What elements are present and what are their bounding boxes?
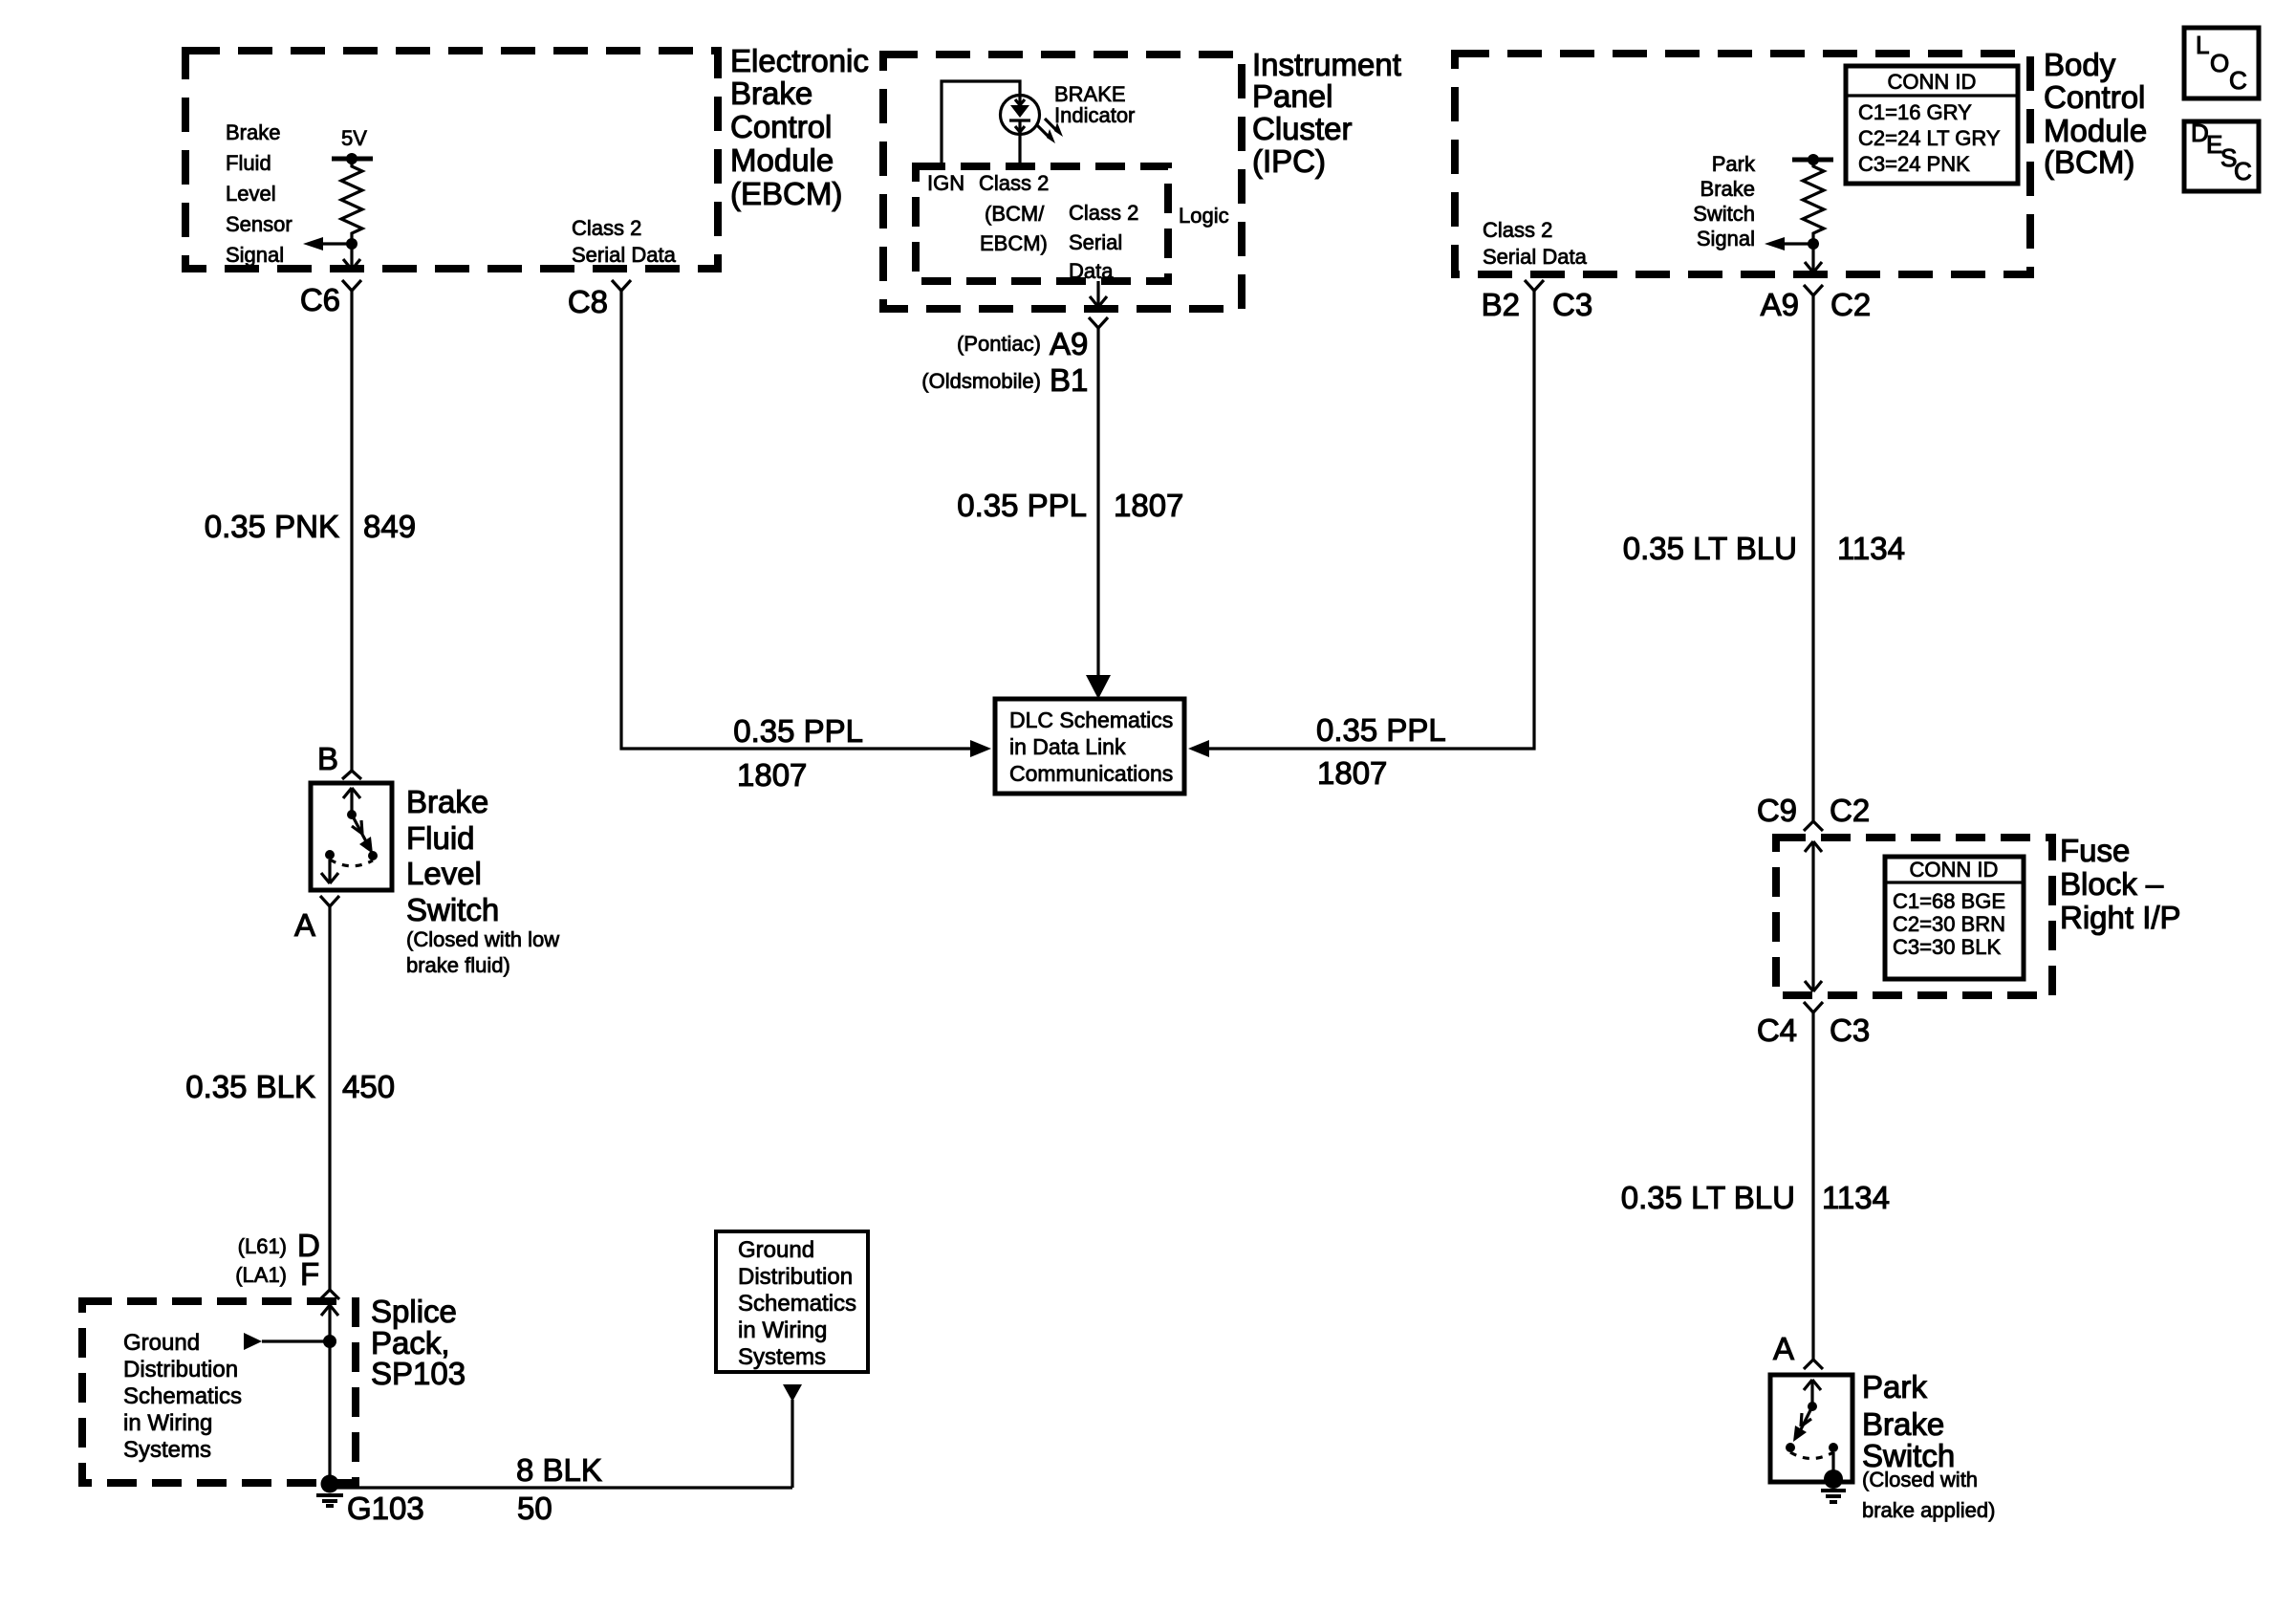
label Body Control Module (BCM) — [2044, 47, 2147, 180]
module box EBCM — [185, 51, 718, 269]
svg-text:450: 450 — [342, 1069, 395, 1104]
svg-text:849: 849 — [363, 509, 416, 544]
svg-text:1134: 1134 — [1822, 1180, 1890, 1215]
svg-text:0.35 PNK: 0.35 PNK — [205, 509, 339, 544]
desc box — [2184, 119, 2259, 191]
connector C8 — [568, 280, 631, 319]
loc box — [2184, 28, 2259, 98]
svg-text:C9: C9 — [1757, 793, 1797, 828]
svg-text:Serial: Serial — [1069, 230, 1122, 254]
svg-text:C2=24 LT GRY: C2=24 LT GRY — [1858, 126, 2001, 150]
svg-text:C2=30 BRN: C2=30 BRN — [1893, 912, 2005, 936]
label 8 BLK 50 — [516, 1452, 602, 1526]
svg-text:Signal: Signal — [1697, 227, 1755, 250]
svg-text:SP103: SP103 — [371, 1356, 466, 1391]
label 0.35 PNK 849 — [205, 509, 416, 544]
wire fuse block pass-through — [1805, 841, 1822, 991]
svg-text:Control: Control — [730, 109, 832, 144]
svg-text:B: B — [317, 741, 338, 776]
svg-text:1134: 1134 — [1837, 531, 1905, 566]
svg-text:B2: B2 — [1482, 287, 1520, 322]
svg-text:A9: A9 — [1761, 287, 1799, 322]
svg-text:A9: A9 — [1050, 326, 1088, 361]
svg-text:brake fluid): brake fluid) — [406, 953, 510, 977]
label (Pontiac) A9 (Oldsmobile) B1 — [921, 326, 1088, 398]
label Electronic Brake Control Module (EBCM) — [730, 43, 869, 211]
ground G103 — [316, 1475, 424, 1527]
label 0.35 PPL 1807 (left) — [733, 713, 863, 793]
svg-text:Brake: Brake — [226, 120, 280, 144]
wire A9 internal with arrowhead — [1805, 244, 1822, 272]
svg-text:0.35 PPL: 0.35 PPL — [957, 488, 1087, 523]
svg-text:Switch: Switch — [1693, 202, 1755, 226]
svg-text:Brake: Brake — [1700, 177, 1755, 201]
svg-text:Class 2: Class 2 — [1069, 201, 1138, 225]
svg-text:(EBCM): (EBCM) — [730, 176, 842, 211]
wire 0.35 PPL 1807 (BCM to DLC) — [1188, 291, 1534, 757]
node B — [317, 741, 361, 779]
label Brake Fluid Level Switch — [406, 784, 559, 977]
svg-text:Switch: Switch — [406, 892, 499, 927]
svg-text:1807: 1807 — [1317, 755, 1387, 791]
label Instrument Panel Cluster (IPC) — [1252, 47, 1401, 179]
svg-text:Ground: Ground — [123, 1330, 200, 1356]
svg-text:C8: C8 — [568, 284, 608, 319]
switch Brake Fluid Level Switch — [311, 783, 392, 890]
svg-text:Systems: Systems — [738, 1344, 826, 1370]
svg-text:C: C — [2234, 157, 2252, 185]
svg-text:5V: 5V — [341, 126, 367, 150]
svg-text:IGN: IGN — [927, 171, 964, 195]
svg-text:CONN ID: CONN ID — [1888, 70, 1977, 94]
resistor EBCM pull-up — [341, 159, 362, 244]
connector IPC output — [1089, 317, 1108, 328]
svg-text:Data: Data — [1069, 259, 1114, 283]
wire signal output arrow BCM — [1765, 237, 1819, 250]
connector B2 C3 — [1482, 280, 1593, 322]
label Park Brake Switch (Closed with brake applied) — [1862, 1369, 1995, 1522]
svg-text:Serial Data: Serial Data — [1483, 245, 1588, 269]
svg-text:C3: C3 — [1552, 287, 1592, 322]
wire 0.35 PPL 1807 (IPC to DLC) — [1086, 328, 1111, 699]
svg-text:(Closed with: (Closed with — [1862, 1468, 1978, 1491]
svg-text:50: 50 — [517, 1491, 552, 1526]
fuse block dashed box — [1776, 838, 2052, 995]
svg-text:Instrument: Instrument — [1252, 47, 1401, 82]
svg-text:Class 2: Class 2 — [1483, 218, 1552, 242]
svg-text:Right I/P: Right I/P — [2060, 900, 2181, 935]
conn id table BCM — [1846, 66, 2018, 184]
svg-text:Level: Level — [406, 856, 482, 891]
label 0.35 PPL 1807 (right) — [1316, 712, 1446, 791]
svg-text:Panel: Panel — [1252, 78, 1332, 114]
box DLC Schematics — [995, 699, 1184, 794]
svg-text:F: F — [300, 1256, 319, 1292]
svg-text:Splice: Splice — [371, 1294, 457, 1329]
label Park Brake Switch Signal — [1693, 152, 1756, 250]
svg-text:Block –: Block – — [2060, 866, 2164, 902]
ground park brake switch — [1821, 1491, 1846, 1502]
box Ground Distribution Schematics in Wiring Systems (right) — [716, 1231, 868, 1372]
label Logic — [1179, 204, 1229, 228]
svg-text:C3: C3 — [1830, 1012, 1870, 1048]
svg-text:Module: Module — [730, 142, 834, 178]
svg-text:Brake: Brake — [1862, 1406, 1944, 1442]
svg-text:L: L — [2196, 31, 2209, 59]
svg-text:G103: G103 — [347, 1491, 424, 1526]
svg-text:in Data Link: in Data Link — [1009, 734, 1126, 759]
module box BCM — [1455, 54, 2030, 274]
svg-text:brake applied): brake applied) — [1862, 1498, 1995, 1522]
svg-text:(Pontiac): (Pontiac) — [957, 332, 1041, 356]
connector C4 C3 — [1757, 1002, 1870, 1048]
wire 0.35 LT BLU 1134 (lower) — [1811, 1012, 1814, 1360]
label Class 2 Serial Data (EBCM) — [572, 216, 677, 267]
svg-text:C6: C6 — [300, 282, 340, 317]
svg-text:1807: 1807 — [737, 757, 807, 793]
svg-text:Cluster: Cluster — [1252, 111, 1353, 146]
logic box IPC — [916, 166, 1168, 281]
svg-text:Distribution: Distribution — [123, 1357, 238, 1382]
svg-text:Fuse: Fuse — [2060, 833, 2130, 868]
connector C9 C2 at fuse block — [1757, 793, 1870, 831]
svg-text:Park: Park — [1712, 152, 1756, 176]
svg-text:(Closed with low: (Closed with low — [406, 927, 559, 951]
svg-text:(IPC): (IPC) — [1252, 143, 1326, 179]
wire 0.35 LT BLU 1134 (upper) — [1811, 295, 1814, 821]
svg-text:Electronic: Electronic — [730, 43, 869, 78]
svg-text:B1: B1 — [1050, 362, 1088, 398]
svg-text:Serial Data: Serial Data — [572, 243, 677, 267]
label Fuse Block - Right I/P — [2060, 833, 2181, 935]
svg-text:C1=68 BGE: C1=68 BGE — [1893, 889, 2005, 913]
label Class 2 Serial Data (BCM) — [1483, 218, 1588, 269]
label Ground Distribution Schematics in Wiring Systems (left) — [123, 1330, 242, 1463]
svg-text:Brake: Brake — [730, 76, 812, 111]
wire 0.35 PPL 1807 (EBCM to DLC) — [621, 291, 991, 757]
label IGN Class 2 (BCM/EBCM) — [927, 171, 1049, 255]
svg-text:Logic: Logic — [1179, 204, 1229, 228]
svg-text:Ground: Ground — [738, 1237, 814, 1263]
connector into splice pack — [320, 1290, 339, 1316]
svg-text:Control: Control — [2044, 79, 2145, 115]
svg-text:Class 2: Class 2 — [979, 171, 1049, 195]
svg-text:C1=16 GRY: C1=16 GRY — [1858, 100, 1972, 124]
node A park brake — [1773, 1331, 1823, 1369]
svg-text:CONN ID: CONN ID — [1910, 858, 1999, 882]
svg-text:C: C — [2229, 66, 2247, 95]
svg-text:Class 2: Class 2 — [572, 216, 641, 240]
node 5V supply rail — [332, 126, 373, 164]
svg-text:(BCM/: (BCM/ — [985, 202, 1045, 226]
svg-text:0.35 BLK: 0.35 BLK — [185, 1069, 315, 1104]
node A connector — [294, 896, 339, 943]
svg-text:Signal: Signal — [226, 243, 284, 267]
svg-text:(L61): (L61) — [238, 1234, 287, 1258]
svg-text:Schematics: Schematics — [738, 1291, 856, 1317]
svg-text:Park: Park — [1862, 1369, 1927, 1404]
svg-text:8 BLK: 8 BLK — [516, 1452, 602, 1488]
label Brake Fluid Level Sensor Signal — [226, 120, 292, 267]
label 0.35 PPL 1807 (middle) — [957, 488, 1183, 523]
svg-text:Brake: Brake — [406, 784, 488, 819]
svg-text:0.35 PPL: 0.35 PPL — [1316, 712, 1446, 748]
label 0.35 LT BLU 1134 (lower) — [1621, 1180, 1890, 1215]
svg-text:(BCM): (BCM) — [2044, 144, 2134, 180]
node BCM supply rail — [1792, 154, 1833, 165]
wire IPC output internal — [1090, 281, 1107, 307]
svg-text:Schematics: Schematics — [123, 1383, 242, 1409]
svg-text:Systems: Systems — [123, 1437, 211, 1463]
connector C6 — [300, 280, 361, 317]
module box IPC — [883, 54, 1242, 309]
svg-text:Level: Level — [226, 182, 276, 206]
svg-text:C3=24 PNK: C3=24 PNK — [1858, 152, 1970, 176]
svg-text:0.35 PPL: 0.35 PPL — [733, 713, 863, 749]
svg-text:(Oldsmobile): (Oldsmobile) — [921, 369, 1041, 393]
svg-text:DLC Schematics: DLC Schematics — [1009, 708, 1173, 732]
wire 0.35 PNK 849 — [350, 291, 353, 771]
switch Park Brake Switch — [1770, 1375, 1852, 1489]
svg-text:C2: C2 — [1830, 287, 1871, 322]
wire signal output arrow EBCM — [303, 237, 357, 250]
wire C6 internal with arrowhead — [343, 244, 360, 270]
svg-text:1807: 1807 — [1114, 488, 1183, 523]
svg-text:in Wiring: in Wiring — [738, 1317, 827, 1343]
wire ground reference arrow into splice — [244, 1333, 336, 1350]
svg-text:C3=30 BLK: C3=30 BLK — [1893, 935, 2001, 959]
svg-text:Fluid: Fluid — [226, 151, 271, 175]
splice pack SP103 dashed box — [82, 1301, 356, 1483]
svg-text:Communications: Communications — [1009, 761, 1173, 786]
svg-text:A: A — [1773, 1331, 1794, 1366]
connector A9 C2 — [1761, 285, 1872, 322]
wire splice vertical — [328, 1305, 331, 1485]
svg-text:Fluid: Fluid — [406, 820, 475, 856]
svg-text:C2: C2 — [1830, 793, 1870, 828]
svg-text:EBCM): EBCM) — [980, 231, 1048, 255]
indicator lamp BRAKE — [942, 81, 1063, 166]
svg-text:A: A — [294, 907, 315, 943]
svg-text:Body: Body — [2044, 47, 2116, 82]
svg-text:in Wiring: in Wiring — [123, 1410, 212, 1436]
label 0.35 LT BLU 1134 (upper) — [1623, 531, 1905, 566]
svg-text:(LA1): (LA1) — [235, 1263, 287, 1287]
svg-text:C4: C4 — [1757, 1012, 1797, 1048]
svg-text:Sensor: Sensor — [226, 212, 292, 236]
label 0.35 BLK 450 — [185, 1069, 395, 1104]
svg-text:Indicator: Indicator — [1054, 103, 1135, 127]
label Class 2 Serial Data (IPC) — [1069, 201, 1138, 283]
svg-text:O: O — [2210, 49, 2229, 77]
conn id table fuse block — [1885, 857, 2024, 979]
label (L61) D / (LA1) F — [235, 1228, 320, 1292]
wire 8 BLK 50 — [330, 1384, 802, 1488]
label BRAKE Indicator — [1054, 82, 1135, 127]
wire 0.35 BLK 450 — [328, 906, 331, 1290]
svg-text:Distribution: Distribution — [738, 1264, 853, 1290]
svg-text:0.35 LT BLU: 0.35 LT BLU — [1623, 531, 1797, 566]
svg-text:Module: Module — [2044, 113, 2147, 148]
svg-text:0.35 LT BLU: 0.35 LT BLU — [1621, 1180, 1795, 1215]
label Splice Pack, SP103 — [371, 1294, 466, 1391]
resistor BCM pull-up — [1803, 160, 1824, 244]
